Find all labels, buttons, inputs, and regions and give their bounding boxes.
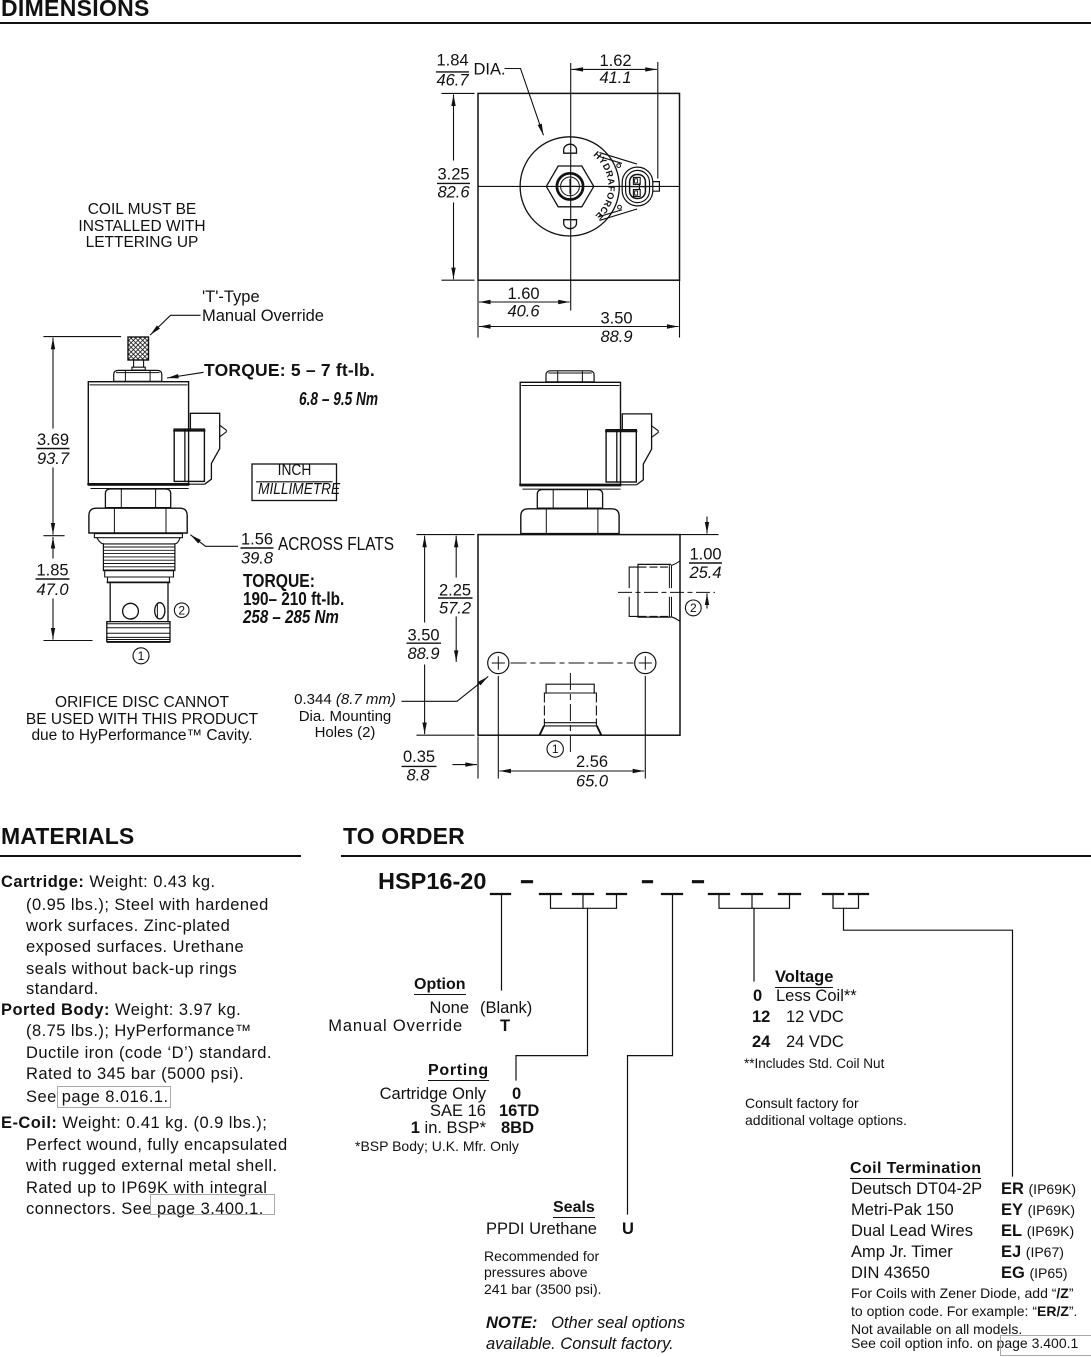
leader torque coil nut bbox=[168, 372, 204, 378]
top view: connector pin slot upper bbox=[633, 177, 640, 184]
dim 3.50 right extension line bbox=[679, 280, 681, 337]
step rings below threads bbox=[105, 571, 174, 577]
porting drop line bbox=[516, 908, 588, 1080]
dim 1.62 dimension line bbox=[572, 68, 656, 70]
materials paragraph: e-coil bbox=[1, 1115, 267, 1132]
leader for DIA. label bbox=[505, 69, 543, 135]
leader across flats bbox=[191, 535, 238, 546]
port 1 centerline dashed bbox=[569, 674, 571, 757]
dim 3.50 (block) dimension line lower bbox=[424, 665, 426, 734]
port 2 chamfer to face bbox=[672, 561, 680, 621]
top view: horizontal centerline bbox=[478, 185, 679, 187]
voltage drop line bbox=[753, 908, 755, 981]
dim 3.50 (block) top extension bbox=[417, 534, 474, 536]
mounting hole right bbox=[635, 652, 656, 673]
bar 0.35 bbox=[402, 765, 437, 767]
nose with grooves bbox=[107, 622, 170, 642]
svg-text:1.60: 1.60 bbox=[507, 285, 539, 303]
note orifice disc bbox=[22, 695, 262, 745]
dim 1.62 right extension line bbox=[657, 63, 659, 179]
threaded section bbox=[103, 544, 174, 571]
port 2 counterbore bbox=[638, 564, 671, 617]
bar 3.69 bbox=[37, 448, 70, 450]
right valve coil assembly (reuse) bbox=[546, 371, 594, 382]
dim 2.25 dimension line lower bbox=[455, 617, 457, 661]
port 1 chamfer feet bbox=[539, 726, 601, 734]
mounting holes centerline dash-dot bbox=[511, 662, 633, 664]
bar 3.25 bbox=[437, 182, 470, 184]
svg-text:40.6: 40.6 bbox=[507, 303, 540, 321]
code blank underscores bbox=[491, 893, 868, 895]
top view: connector shell ring 2 bbox=[626, 170, 650, 202]
dim 2.56 dimension line bbox=[500, 770, 644, 772]
svg-text:88.9: 88.9 bbox=[407, 645, 439, 663]
seals drop line bbox=[628, 895, 673, 1214]
port 2 centerline dashed bbox=[619, 591, 715, 593]
heading DIMENSIONS bbox=[1, 0, 150, 16]
svg-text:3.50: 3.50 bbox=[600, 310, 632, 328]
inch/millimetre legend text bbox=[258, 463, 331, 480]
heading MATERIALS bbox=[1, 828, 134, 845]
dim 2.25 dimension line upper bbox=[455, 536, 457, 577]
dim 1.00 bottom arrow bbox=[706, 594, 708, 608]
shoulder extension line bbox=[44, 535, 64, 537]
coil termination group bbox=[850, 1161, 981, 1178]
coil termination bracket bbox=[833, 895, 859, 909]
bar 1.00 bbox=[689, 562, 722, 564]
option group bbox=[414, 977, 466, 994]
coil connector front block bbox=[174, 429, 204, 481]
port 2 callout circle (block) bbox=[685, 600, 701, 616]
dim 3.69 top extension line bbox=[44, 336, 121, 338]
port 1 callout circle (left valve) bbox=[133, 648, 149, 664]
svg-text:2.56: 2.56 bbox=[576, 753, 608, 771]
porting bracket bbox=[551, 895, 617, 909]
inch/millimetre legend box bbox=[252, 464, 337, 501]
seals group bbox=[553, 1200, 595, 1217]
coil termination drop line bbox=[844, 908, 1013, 1176]
top view: connector key bar bbox=[631, 184, 647, 190]
dim 3.25 top extension line bbox=[442, 92, 474, 94]
dim 1.85 bottom extension line bbox=[44, 640, 92, 642]
leader manual override bbox=[151, 315, 201, 334]
top view: connector flange upper edge bbox=[599, 153, 637, 164]
top view: nut ring inner bbox=[561, 177, 580, 196]
svg-text:1.56: 1.56 bbox=[241, 531, 273, 549]
porting group bbox=[428, 1063, 489, 1080]
dim 3.25 dimension line upper segment bbox=[453, 95, 455, 160]
materials paragraph: ported body bbox=[1, 1002, 241, 1019]
dim 3.25 bottom extension line bbox=[442, 279, 474, 281]
top view: flange hole lower bbox=[618, 205, 622, 209]
dim 1.85 dimension line upper segment bbox=[52, 538, 54, 559]
dim 3.50 dimension line bbox=[480, 326, 679, 328]
svg-text:1.00: 1.00 bbox=[689, 546, 721, 564]
top view: mounting square outline bbox=[478, 93, 680, 280]
svg-text:1: 1 bbox=[552, 742, 559, 756]
svg-text:3.69: 3.69 bbox=[37, 431, 69, 449]
voltage bracket bbox=[719, 895, 790, 909]
top view: connector shell ring 1 bbox=[622, 167, 653, 206]
top view: center hex nut bbox=[546, 166, 594, 207]
leader mounting holes bbox=[402, 677, 488, 702]
manual override knurled knob bbox=[128, 337, 149, 360]
svg-text:1: 1 bbox=[138, 649, 145, 663]
svg-text:46.7: 46.7 bbox=[436, 72, 469, 90]
cross port hole side bbox=[155, 603, 165, 619]
svg-text:DIA.: DIA. bbox=[474, 61, 506, 79]
coil retaining nut (hex) bbox=[105, 489, 170, 508]
materials paragraph: cartridge bbox=[1, 874, 216, 891]
mounting hole left bbox=[488, 652, 509, 673]
coil connector back shell bbox=[190, 413, 219, 484]
svg-text:1.84: 1.84 bbox=[436, 52, 468, 70]
connector latch tab bbox=[220, 425, 227, 437]
top view: bottom slot bbox=[564, 220, 577, 229]
locating washer bbox=[94, 534, 182, 538]
port 2 thread bore bbox=[629, 567, 646, 616]
code dashes bbox=[523, 880, 703, 883]
dim 1.60 dimension line bbox=[480, 301, 570, 303]
ordering code bbox=[378, 873, 486, 890]
port 2 callout circle (left valve) bbox=[174, 603, 189, 618]
dim 0.35 dimension line bbox=[453, 764, 476, 766]
bar 1.56 bbox=[241, 547, 274, 549]
svg-text:65.0: 65.0 bbox=[576, 773, 609, 791]
dim 3.50 left extension line bbox=[477, 280, 479, 337]
svg-text:93.7: 93.7 bbox=[37, 450, 70, 468]
svg-text:1.85: 1.85 bbox=[36, 562, 68, 580]
top view: connector pin slot lower bbox=[633, 190, 640, 197]
svg-text:2: 2 bbox=[178, 603, 185, 617]
note: coil orientation bbox=[54, 202, 230, 252]
valve body hex bbox=[89, 508, 187, 533]
extension line block left edge bbox=[477, 737, 479, 778]
top view: nut ring outer bbox=[557, 173, 583, 199]
extension line right mounting hole bbox=[644, 677, 646, 779]
coil body bbox=[88, 382, 188, 485]
svg-text:88.9: 88.9 bbox=[600, 328, 632, 346]
dim 3.69 dimension line lower segment bbox=[52, 468, 54, 534]
E-coil assembly (shared) bbox=[88, 382, 226, 533]
coil top nut (left valve) bbox=[114, 370, 162, 381]
svg-text:41.1: 41.1 bbox=[599, 69, 631, 87]
label across flats bbox=[278, 536, 394, 553]
option drop line bbox=[501, 895, 503, 990]
svg-text:82.6: 82.6 bbox=[437, 184, 470, 202]
port 1 counterbore lip bbox=[546, 684, 594, 693]
dim 3.69 dimension line upper segment bbox=[52, 338, 54, 428]
top view: vertical centerline bbox=[570, 64, 572, 311]
extension line left mounting hole bbox=[497, 677, 499, 779]
svg-text:39.8: 39.8 bbox=[241, 550, 274, 568]
cartridge lower body bbox=[110, 582, 168, 621]
ported body block outline bbox=[478, 535, 680, 736]
label torque coil nut bbox=[204, 362, 375, 379]
dim 3.50 (block) bottom extension bbox=[417, 734, 474, 736]
label manual override bbox=[202, 288, 324, 326]
note mounting holes bbox=[289, 692, 401, 742]
dim 1.85 dimension line lower segment bbox=[52, 599, 54, 639]
svg-text:25.4: 25.4 bbox=[688, 564, 721, 582]
fraction bars bbox=[36, 72, 723, 767]
bar 1.85 bbox=[36, 578, 70, 580]
svg-text:8.8: 8.8 bbox=[407, 767, 431, 785]
label torque cartridge bbox=[243, 573, 315, 590]
bar 1.84 bbox=[436, 71, 469, 73]
svg-text:1.62: 1.62 bbox=[599, 52, 631, 70]
dim 3.50 (block) dimension line upper bbox=[424, 536, 426, 622]
svg-text:2.25: 2.25 bbox=[439, 582, 471, 600]
top view: coil outer circle bbox=[520, 137, 619, 236]
voltage group bbox=[775, 969, 833, 986]
cross port hole round bbox=[123, 603, 139, 619]
extension line block top right bbox=[681, 534, 718, 536]
top view: connector right tab bbox=[653, 182, 659, 192]
neck below washer bbox=[97, 538, 180, 544]
svg-text:3.25: 3.25 bbox=[437, 166, 469, 184]
dim 3.25 dimension line lower segment bbox=[453, 203, 455, 279]
svg-text:47.0: 47.0 bbox=[36, 581, 69, 599]
port 2 spot face double line bbox=[669, 566, 671, 617]
override stem bbox=[132, 360, 145, 370]
top view: connector flange lower edge bbox=[599, 209, 637, 220]
port 1 callout circle (block) bbox=[547, 741, 563, 757]
circled port numbers bbox=[138, 601, 697, 756]
port 1 bore outline bbox=[544, 693, 596, 726]
bar 2.25 bbox=[438, 597, 473, 599]
svg-text:0.35: 0.35 bbox=[403, 748, 435, 766]
svg-text:2: 2 bbox=[690, 601, 697, 615]
bar 3.50 block bbox=[407, 642, 442, 644]
dim 1.00 top arrow bbox=[706, 517, 708, 533]
svg-text:57.2: 57.2 bbox=[439, 600, 471, 618]
top view: top slot bbox=[564, 144, 577, 153]
svg-text:3.50: 3.50 bbox=[407, 627, 439, 645]
heading TO ORDER bbox=[343, 828, 465, 845]
top view: connector shell ring 3 bbox=[630, 175, 646, 199]
top view: flange hole upper bbox=[617, 164, 621, 168]
top view: center cross bbox=[563, 180, 577, 194]
